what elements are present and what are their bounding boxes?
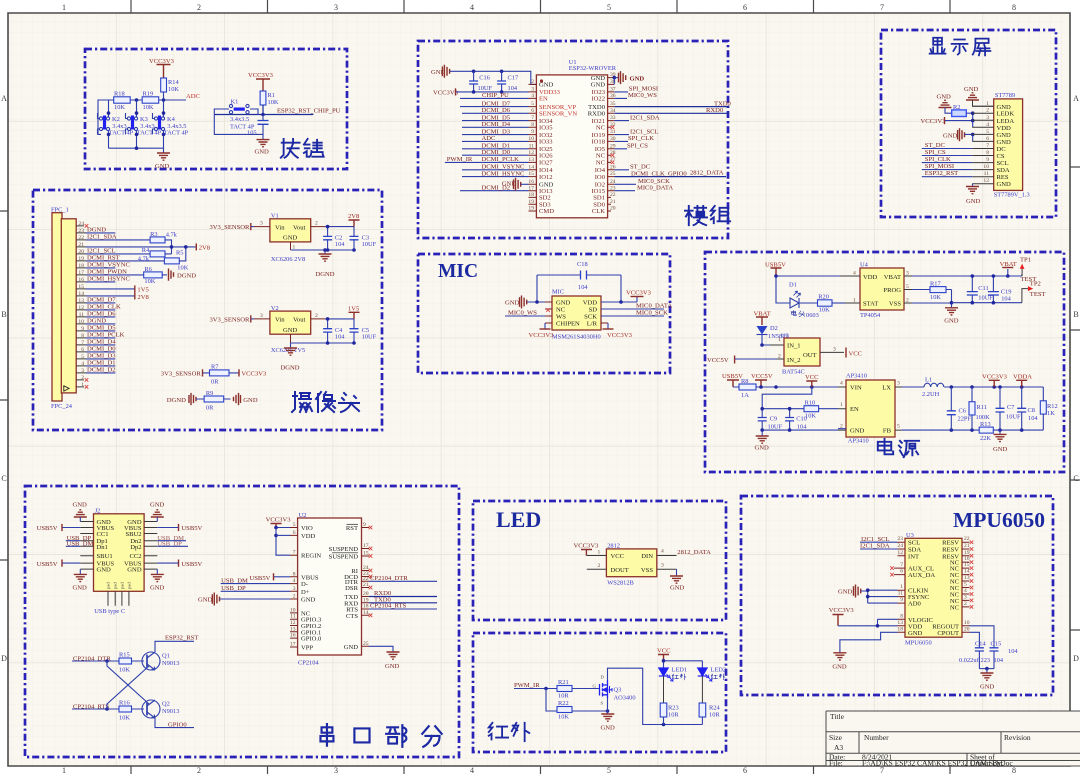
svg-text:DCMI_CLK: DCMI_CLK (87, 304, 121, 311)
block box: display (881, 30, 1056, 217)
svg-text:IN_2: IN_2 (787, 357, 801, 364)
svg-text:20: 20 (78, 249, 84, 255)
svg-text:223: 223 (981, 657, 991, 664)
svg-text:3: 3 (833, 347, 836, 353)
svg-text:18: 18 (363, 604, 369, 610)
section labels (281, 38, 1045, 747)
svg-text:L1: L1 (925, 377, 932, 384)
capacitor C16 (473, 71, 475, 92)
svg-text:PWM_IR: PWM_IR (447, 156, 473, 163)
svg-text:R24: R24 (709, 705, 720, 712)
svg-text:5: 5 (906, 284, 909, 290)
svg-text:R12: R12 (1047, 403, 1058, 410)
capacitor C15 (970, 626, 995, 669)
svg-text:GND: GND (198, 597, 213, 604)
svg-text:13: 13 (897, 620, 903, 626)
svg-text:pad: pad (119, 582, 124, 589)
svg-text:20: 20 (363, 591, 369, 597)
svg-text:STAT: STAT (863, 301, 878, 308)
svg-text:GND: GND (964, 86, 979, 93)
resistor R22 (557, 707, 572, 713)
svg-text:GND: GND (832, 664, 847, 671)
svg-text:0.022uf: 0.022uf (959, 657, 980, 664)
svg-text:19: 19 (78, 256, 84, 262)
svg-text:38: 38 (610, 79, 616, 85)
svg-text:22: 22 (610, 192, 616, 198)
svg-text:USB5V: USB5V (181, 525, 202, 532)
svg-text:10UF: 10UF (768, 424, 783, 431)
svg-text:9: 9 (986, 157, 989, 163)
ground GND (mpu) (840, 632, 898, 653)
svg-text:8: 8 (81, 333, 84, 339)
svg-text:C: C (1, 474, 6, 483)
svg-text:1A: 1A (741, 392, 749, 399)
svg-text:DCMI_PCLK: DCMI_PCLK (482, 156, 520, 163)
svg-text:R21: R21 (558, 679, 569, 686)
svg-text:VCC3V3: VCC3V3 (607, 332, 633, 339)
svg-text:Revision: Revision (1004, 733, 1031, 742)
svg-text:3: 3 (897, 381, 900, 387)
svg-text:R8: R8 (741, 378, 748, 385)
svg-text:ESP32-WROVER: ESP32-WROVER (569, 65, 617, 72)
svg-text:10K: 10K (168, 86, 179, 93)
svg-text:12: 12 (983, 178, 989, 184)
svg-text:5: 5 (293, 522, 296, 528)
resistor R19 (142, 97, 159, 103)
svg-text:R9: R9 (206, 390, 213, 397)
resistor R10 (EN) (804, 406, 819, 412)
svg-text:2: 2 (81, 375, 84, 381)
svg-text:I2C1_SCL: I2C1_SCL (87, 248, 116, 255)
svg-text:LED2: LED2 (711, 667, 727, 674)
svg-text:10K: 10K (114, 104, 125, 111)
svg-text:MIC0_DATA: MIC0_DATA (637, 184, 673, 191)
svg-text:SENSOR_VN: SENSOR_VN (539, 111, 577, 118)
fuse R8 (739, 384, 756, 390)
svg-text:13: 13 (290, 626, 296, 632)
svg-text:DIN: DIN (641, 553, 653, 560)
svg-text:A: A (1073, 94, 1079, 103)
svg-text:6: 6 (743, 766, 747, 774)
svg-text:4: 4 (661, 549, 664, 555)
svg-text:GND: GND (850, 428, 865, 435)
svg-text:MIC: MIC (552, 289, 564, 296)
svg-text:10UF: 10UF (362, 241, 377, 248)
svg-text:pad: pad (106, 582, 111, 589)
svg-text:GND: GND (943, 132, 958, 139)
diode D2 1N5819 (757, 326, 768, 335)
svg-text:2.2UH: 2.2UH (922, 391, 940, 398)
svg-text:Vout: Vout (293, 317, 306, 324)
svg-text:C17: C17 (508, 75, 519, 82)
svg-text:R6: R6 (144, 266, 151, 273)
svg-text:10K: 10K (119, 667, 130, 674)
svg-text:DGND: DGND (316, 271, 335, 278)
svg-text:D2: D2 (770, 325, 778, 332)
svg-text:CMD: CMD (539, 208, 554, 215)
svg-text:10: 10 (964, 620, 970, 626)
svg-text:CPOUT: CPOUT (937, 630, 959, 637)
svg-text:CP2104: CP2104 (298, 660, 319, 667)
capacitor C10 (785, 418, 794, 421)
svg-text:4: 4 (81, 361, 84, 367)
svg-text:14: 14 (78, 291, 84, 297)
svg-text:3: 3 (260, 313, 263, 319)
svg-text:MSM261S4030H0: MSM261S4030H0 (552, 334, 601, 341)
svg-text:5: 5 (531, 101, 534, 107)
svg-text:1V5: 1V5 (348, 306, 360, 313)
svg-text:IN_1: IN_1 (787, 343, 801, 350)
svg-text:L/R: L/R (587, 321, 598, 328)
svg-text:FB: FB (883, 428, 892, 435)
svg-text:Q3: Q3 (614, 687, 622, 694)
capacitor C5 (350, 329, 359, 332)
ground GND (out) (999, 430, 1001, 434)
svg-text:MIC: MIC (438, 261, 478, 282)
svg-text:104: 104 (797, 423, 807, 430)
FPC pins (76, 226, 86, 387)
ground GND (U1 top right) (613, 78, 615, 85)
svg-text:2: 2 (598, 563, 601, 569)
svg-text:7: 7 (293, 550, 296, 556)
svg-text:8: 8 (900, 613, 903, 619)
svg-text:9: 9 (363, 522, 366, 528)
svg-text:DCMI_PWDN: DCMI_PWDN (87, 269, 127, 276)
svg-text:R17: R17 (930, 280, 941, 287)
svg-text:VCC3V3: VCC3V3 (829, 607, 855, 614)
ground GND (caps) (979, 668, 994, 670)
svg-text:24: 24 (897, 543, 903, 549)
svg-text:ST7789V_1.3: ST7789V_1.3 (994, 192, 1030, 199)
svg-text:USB type C: USB type C (94, 608, 125, 615)
svg-text:17: 17 (290, 642, 296, 648)
svg-text:7: 7 (531, 115, 534, 121)
resistor R4 (150, 251, 165, 257)
svg-text:DGND: DGND (87, 227, 106, 234)
resistor R6 (144, 272, 163, 278)
resistor R14 (161, 78, 167, 92)
svg-text:TP2: TP2 (1030, 281, 1041, 288)
led LED2 红外 (698, 668, 712, 681)
svg-text:C11: C11 (978, 285, 988, 292)
svg-text:10: 10 (983, 164, 989, 170)
svg-text:SUSPEND: SUSPEND (329, 554, 359, 561)
svg-text:pad: pad (113, 582, 118, 589)
svg-text:C9: C9 (770, 416, 777, 423)
svg-text:1K: 1K (1047, 410, 1055, 417)
svg-text:3V3_SENSOR: 3V3_SENSOR (161, 371, 202, 378)
svg-text:1: 1 (62, 3, 66, 12)
svg-text:DCMI_D0: DCMI_D0 (87, 346, 116, 353)
svg-text:DOUT: DOUT (611, 567, 629, 574)
svg-text:3: 3 (334, 3, 338, 12)
svg-text:2V8: 2V8 (137, 294, 149, 301)
svg-text:GND: GND (908, 630, 923, 637)
VBAT rail with caps (912, 269, 1022, 303)
svg-text:6: 6 (900, 569, 903, 575)
resistor R21 (557, 686, 572, 692)
svg-text:GND: GND (993, 446, 1008, 453)
capacitor C11 (967, 292, 978, 295)
svg-text:22: 22 (363, 576, 369, 582)
svg-text:25: 25 (363, 641, 369, 647)
svg-text:LED1: LED1 (672, 667, 688, 674)
svg-text:SCK: SCK (584, 314, 597, 321)
svg-text:VCC3V3: VCC3V3 (266, 517, 292, 524)
svg-text:7: 7 (880, 3, 884, 12)
svg-text:2: 2 (197, 766, 201, 774)
svg-text:2: 2 (315, 313, 318, 319)
svg-text:R15: R15 (119, 652, 130, 659)
svg-text:ESP32_RST_CHIP_PU: ESP32_RST_CHIP_PU (277, 108, 341, 115)
svg-text:GND: GND (539, 82, 554, 89)
svg-text:R14: R14 (168, 79, 179, 86)
svg-text:PWM_IR: PWM_IR (514, 682, 540, 689)
resistor R7 (210, 370, 230, 376)
resistor R16 (119, 706, 132, 712)
svg-text:0R: 0R (211, 379, 219, 386)
svg-text:USB5V: USB5V (37, 525, 58, 532)
svg-text:2812_DATA: 2812_DATA (677, 549, 711, 556)
svg-text:GND: GND (997, 139, 1012, 146)
ground GND (ws2812) (676, 569, 678, 576)
svg-text:DCMI_D4: DCMI_D4 (87, 339, 116, 346)
block box: ir (473, 633, 726, 752)
svg-text:NC: NC (556, 307, 566, 314)
svg-text:10: 10 (290, 607, 296, 613)
svg-text:Vin: Vin (275, 317, 285, 324)
svg-text:11: 11 (290, 614, 296, 620)
label 红外 (489, 723, 529, 741)
svg-text:104: 104 (335, 241, 345, 248)
cross wires (107, 661, 149, 709)
svg-text:DCMI_D3: DCMI_D3 (87, 353, 116, 360)
svg-text:9: 9 (81, 326, 84, 332)
U1 left net wires (445, 98, 529, 190)
transistor Q1 (142, 652, 160, 670)
svg-text:6: 6 (81, 347, 84, 353)
svg-text:VSS: VSS (641, 567, 653, 574)
svg-text:VDD: VDD (863, 274, 878, 281)
svg-text:VDD: VDD (301, 533, 316, 540)
switch K1 (214, 104, 263, 134)
svg-text:ADC: ADC (482, 135, 497, 142)
svg-text:4: 4 (840, 381, 843, 387)
svg-text:12: 12 (78, 305, 84, 311)
wire gnd to U1 (450, 71, 537, 84)
svg-text:4: 4 (986, 122, 989, 128)
svg-text:12: 12 (897, 550, 903, 556)
svg-text:18: 18 (78, 263, 84, 269)
block box: serial (25, 486, 459, 757)
svg-text:6: 6 (986, 136, 989, 142)
svg-text:XC6206 2V8: XC6206 2V8 (271, 256, 305, 263)
svg-text:3: 3 (293, 586, 296, 592)
svg-text:5: 5 (964, 582, 967, 588)
svg-text:IO35: IO35 (539, 125, 553, 132)
svg-text:NC: NC (596, 152, 606, 159)
power 2V8 (row14) (134, 292, 136, 299)
svg-text:4: 4 (470, 3, 474, 12)
svg-text:6: 6 (531, 108, 534, 114)
block box: led (473, 501, 726, 620)
svg-text:REGIN: REGIN (301, 553, 321, 560)
svg-text:10K: 10K (144, 278, 155, 285)
svg-text:16: 16 (528, 179, 534, 185)
svg-text:1: 1 (840, 402, 843, 408)
svg-text:Q2: Q2 (162, 701, 170, 708)
drain wire to leds (608, 668, 703, 724)
svg-text:CHIP_PU: CHIP_PU (482, 92, 509, 99)
svg-text:ST_DC: ST_DC (925, 142, 946, 149)
svg-text:9: 9 (531, 129, 534, 135)
svg-text:MIC0_WS: MIC0_WS (628, 92, 657, 99)
svg-text:VCC3V3: VCC3V3 (529, 332, 555, 339)
output rails (950, 385, 954, 389)
svg-text:DGND: DGND (167, 397, 186, 404)
svg-text:13: 13 (964, 575, 970, 581)
svg-text:AP3410: AP3410 (846, 373, 867, 380)
svg-text:1: 1 (986, 101, 989, 107)
svg-text:VBAT: VBAT (884, 274, 901, 281)
svg-text:2: 2 (197, 3, 201, 12)
svg-text:104: 104 (1001, 296, 1011, 303)
svg-text:DCMI_HSYNC: DCMI_HSYNC (482, 170, 525, 177)
wires to 2V8 pull-up node (165, 240, 196, 261)
resistor R24 (701, 676, 703, 703)
svg-text:10K: 10K (930, 294, 941, 301)
svg-text:18: 18 (897, 626, 903, 632)
svg-text:D-: D- (301, 581, 308, 588)
svg-text:VIO: VIO (301, 525, 313, 532)
svg-text:pad: pad (126, 582, 131, 589)
resistor R20 (818, 300, 833, 306)
label 模组 (685, 206, 730, 225)
svg-text:INT: INT (908, 553, 919, 560)
svg-text:DGND: DGND (87, 318, 106, 325)
svg-text:3: 3 (661, 563, 664, 569)
svg-text:7: 7 (81, 340, 84, 346)
circuits (98, 58, 341, 170)
svg-text:DCMI_D0: DCMI_D0 (482, 149, 511, 156)
svg-text:R19: R19 (143, 91, 154, 98)
svg-text:VCC3V3: VCC3V3 (248, 72, 274, 79)
svg-text:5: 5 (607, 766, 611, 774)
svg-text:3: 3 (334, 766, 338, 774)
resistor R12 (1040, 401, 1046, 414)
svg-text:R23: R23 (668, 705, 679, 712)
svg-text:GND: GND (670, 585, 685, 592)
block box: power (705, 252, 1064, 472)
C18 loop wires (537, 275, 621, 302)
svg-text:2: 2 (531, 79, 534, 85)
svg-text:1V5: 1V5 (137, 286, 149, 293)
svg-text:IO18: IO18 (591, 139, 605, 146)
svg-text:R18: R18 (114, 91, 125, 98)
ground GND (U2 pin25) (369, 646, 393, 652)
svg-text:GND: GND (283, 327, 298, 334)
svg-text:8: 8 (986, 150, 989, 156)
svg-text:21: 21 (964, 543, 970, 549)
svg-text:20: 20 (610, 206, 616, 212)
title block (826, 711, 1080, 768)
svg-text:11: 11 (984, 171, 990, 177)
U1 right pins (608, 78, 615, 211)
svg-text:LX: LX (882, 385, 891, 392)
svg-text:GND: GND (283, 235, 298, 242)
svg-text:GND: GND (838, 589, 853, 596)
U1 left pins (529, 84, 537, 211)
svg-text:3V3_SENSOR: 3V3_SENSOR (210, 316, 251, 323)
svg-text:GND: GND (937, 94, 952, 101)
svg-text:ADC: ADC (186, 93, 201, 100)
connector key triangle (64, 386, 69, 391)
svg-text:GND: GND (73, 585, 88, 592)
svg-text:IO0: IO0 (595, 174, 606, 181)
block box: camera (33, 190, 382, 430)
svg-text:C7: C7 (1007, 404, 1015, 411)
svg-text:C14: C14 (975, 641, 986, 648)
svg-text:RES: RES (997, 174, 1009, 181)
svg-text:CC2: CC2 (130, 553, 142, 560)
svg-text:0R: 0R (206, 405, 214, 412)
svg-text:10: 10 (528, 136, 534, 142)
svg-text:GND: GND (150, 502, 165, 509)
svg-text:IO22: IO22 (591, 96, 605, 103)
label 摄像头 (292, 392, 359, 412)
svg-text:7: 7 (900, 562, 903, 568)
svg-text:DCMI_VSYNC: DCMI_VSYNC (87, 262, 130, 269)
svg-text:VIN: VIN (850, 385, 862, 392)
svg-text:22K: 22K (980, 435, 991, 442)
svg-text:R11: R11 (977, 404, 987, 411)
capacitor 105 (262, 115, 264, 140)
svg-text:D+: D+ (301, 589, 310, 596)
svg-text:3: 3 (260, 221, 263, 227)
svg-text:5: 5 (607, 3, 611, 12)
svg-text:GND: GND (255, 149, 270, 156)
FPC net labels (87, 227, 130, 374)
svg-text:VCC3V3: VCC3V3 (921, 118, 947, 125)
svg-text:SUSPEND: SUSPEND (329, 546, 359, 553)
svg-text:R16: R16 (119, 700, 130, 707)
svg-text:Dn1: Dn1 (97, 544, 108, 551)
svg-text:11: 11 (898, 591, 904, 597)
svg-text:1: 1 (778, 337, 781, 343)
svg-text:23: 23 (897, 536, 903, 542)
svg-text:FPC_24: FPC_24 (51, 403, 73, 410)
svg-text:A3: A3 (834, 743, 843, 752)
svg-text:21: 21 (363, 582, 369, 588)
svg-text:DCMI_D1: DCMI_D1 (87, 360, 116, 367)
svg-text:Q1: Q1 (162, 653, 170, 660)
svg-text:SBU1: SBU1 (97, 553, 113, 560)
ground GND (J2 bottom-left) (79, 569, 81, 574)
ground GND (keys left) (163, 148, 165, 153)
svg-text:SDA: SDA (997, 167, 1010, 174)
svg-text:B: B (1073, 310, 1078, 319)
svg-text:104: 104 (335, 333, 345, 340)
svg-text:DCMI_D5: DCMI_D5 (87, 325, 116, 332)
svg-text:EN: EN (850, 406, 859, 413)
svg-text:2: 2 (986, 108, 989, 114)
svg-text:GND: GND (601, 725, 616, 732)
svg-text:SPI_CLK: SPI_CLK (925, 156, 951, 163)
switch K2 (98, 100, 110, 148)
svg-text:10: 10 (78, 319, 84, 325)
svg-text:1: 1 (598, 550, 601, 556)
svg-text:N9013: N9013 (162, 660, 179, 667)
